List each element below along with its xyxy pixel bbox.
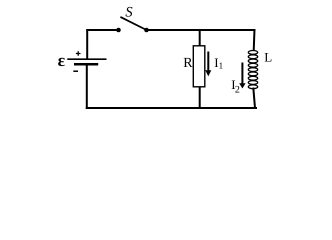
wire: right vertical above inductor	[253, 29, 256, 51]
svg-text:S: S	[125, 5, 133, 21]
wire: resistor branch bottom lead	[199, 87, 201, 108]
svg-text:L: L	[264, 50, 272, 65]
node: switch left terminal dot	[116, 28, 121, 33]
wire: resistor branch top lead	[199, 29, 201, 46]
wire: top-right horizontal (switch to inductor branch)	[147, 29, 256, 31]
wire: left vertical below battery	[86, 66, 88, 110]
switch S blade	[120, 17, 146, 30]
label plus sign	[76, 51, 81, 56]
wire: left vertical above battery	[86, 29, 88, 59]
current arrow I1	[207, 52, 209, 72]
current arrow I2	[241, 63, 243, 85]
inductor L coil loops	[248, 51, 257, 89]
battery cell: long positive plate	[67, 58, 106, 60]
battery cell: short thick negative plate	[74, 63, 98, 66]
wire: top-left horizontal (battery to switch)	[86, 29, 118, 31]
resistor R box	[193, 46, 205, 87]
svg-text:1: 1	[219, 61, 224, 71]
label minus sign	[73, 70, 78, 72]
node: switch right terminal dot	[144, 28, 149, 33]
svg-text:2: 2	[235, 85, 240, 96]
svg-text:R: R	[183, 56, 193, 71]
wire: bottom horizontal	[86, 107, 257, 109]
wire: right vertical below inductor	[253, 88, 255, 109]
svg-text:ε: ε	[58, 50, 66, 70]
